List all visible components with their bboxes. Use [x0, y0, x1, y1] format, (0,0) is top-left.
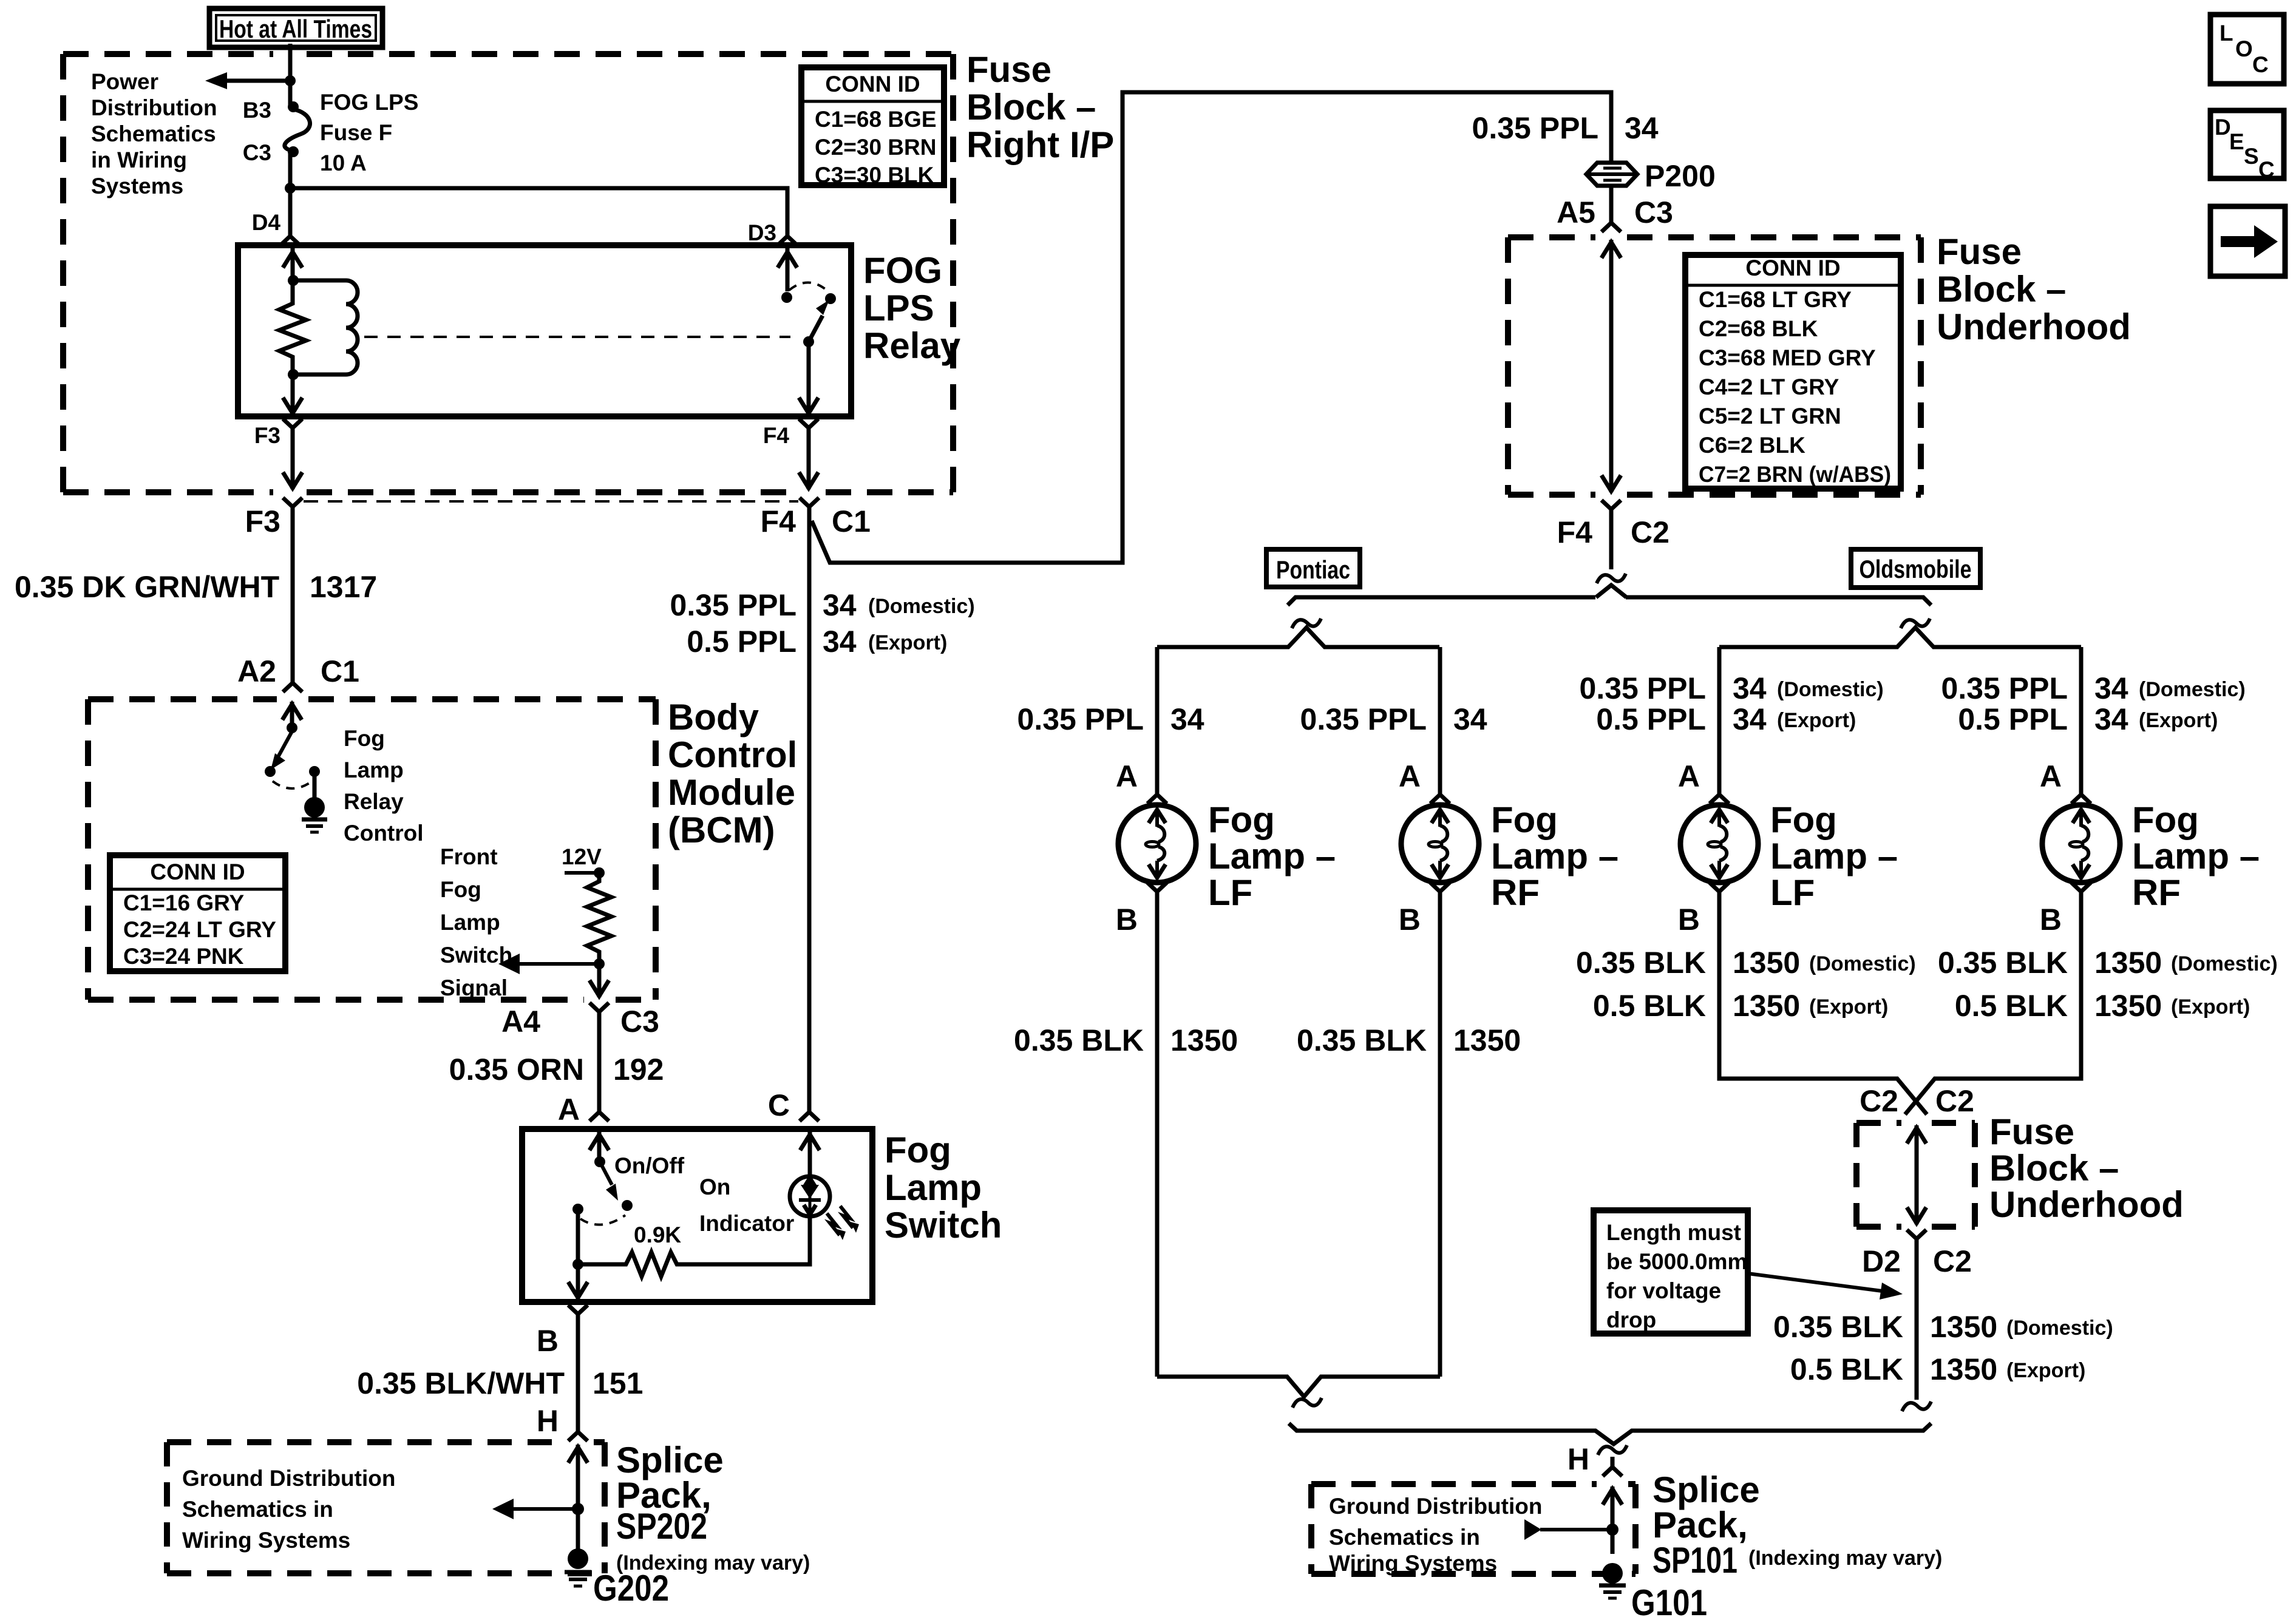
svg-text:A4: A4 [501, 1005, 540, 1039]
svg-text:34: 34 [1733, 702, 1767, 736]
junction below fuse [285, 183, 296, 194]
wire F4 to switch C [807, 517, 812, 1111]
svg-text:C3=24 PNK: C3=24 PNK [123, 944, 244, 969]
svg-text:(Domestic): (Domestic) [1809, 952, 1916, 975]
svg-text:(Domestic): (Domestic) [2139, 678, 2246, 701]
svg-text:Relay: Relay [344, 789, 404, 814]
ground G202 [565, 1548, 591, 1586]
svg-text:C1=68 LT GRY: C1=68 LT GRY [1699, 287, 1852, 312]
svg-text:10 A: 10 A [320, 151, 367, 175]
svg-text:C2: C2 [1935, 1084, 1974, 1118]
label Fog Lamp Fog Lamp - LF [1770, 799, 1898, 913]
svg-text:Fog: Fog [344, 726, 385, 751]
svg-text:C3: C3 [1634, 195, 1673, 229]
on indicator LED [790, 1176, 859, 1240]
svg-text:C1=68 BGE: C1=68 BGE [815, 107, 937, 132]
switch feed arrow C [800, 1132, 820, 1176]
relay coil feed arrow [283, 248, 302, 280]
svg-text:Body: Body [668, 697, 759, 737]
svg-text:Right I/P: Right I/P [966, 124, 1114, 165]
svg-text:C6=2 BLK: C6=2 BLK [1699, 433, 1805, 458]
relay coil L1 [293, 280, 358, 375]
svg-text:(Domestic): (Domestic) [868, 595, 975, 618]
connector C1 dashed link [304, 500, 798, 503]
switch arm on/off [600, 1162, 618, 1201]
svg-text:12V: 12V [562, 844, 602, 869]
svg-text:drop: drop [1606, 1307, 1656, 1332]
svg-text:Pontiac: Pontiac [1276, 555, 1350, 584]
fanout peak top [1596, 585, 1626, 597]
wire B to H [576, 1324, 580, 1422]
svg-text:(Export): (Export) [1809, 995, 1888, 1019]
12V junction [594, 867, 605, 878]
svg-text:Fuse: Fuse [1989, 1111, 2074, 1152]
connector C switch [800, 1102, 819, 1121]
label FOG LPS Relay [863, 250, 961, 366]
wire through small underhood box [1907, 1125, 1926, 1224]
SP202 side arrow [492, 1499, 578, 1519]
SP101 side arrow [1524, 1519, 1612, 1540]
wire into SP101 [1603, 1486, 1622, 1554]
connector B LF pontiac [1147, 883, 1167, 902]
svg-text:1350: 1350 [1930, 1310, 1997, 1344]
connector A LF olds [1710, 784, 1729, 804]
connector A LF pontiac [1147, 784, 1167, 804]
svg-text:1317: 1317 [310, 570, 377, 604]
Pontiac branch fan [1157, 628, 1439, 647]
relay throw dashed arc [789, 282, 828, 291]
LOC icon box [2210, 15, 2284, 84]
relay common contact [803, 336, 814, 347]
svg-text:L: L [2220, 21, 2233, 46]
relay switch feed from D3 [778, 248, 797, 291]
label 0.5 BLK 1350 export olds RF [1955, 989, 2250, 1023]
BCM pullup resistor [587, 873, 611, 964]
svg-text:34: 34 [2094, 702, 2128, 736]
svg-text:D4: D4 [252, 210, 281, 235]
svg-text:F4: F4 [1557, 515, 1593, 549]
svg-text:LF: LF [1770, 872, 1815, 913]
fog lamp bulb LF pontiac [1118, 805, 1196, 883]
label FOG LPS Fuse F 10 A [320, 90, 418, 175]
svg-text:On/Off: On/Off [614, 1153, 685, 1178]
wire B olds LF down [1719, 902, 1927, 1114]
fog lamp bulb RF olds [2042, 805, 2120, 883]
wire break at H splice [1598, 1445, 1627, 1455]
svg-text:SP202: SP202 [616, 1506, 707, 1547]
svg-text:C4=2 LT GRY: C4=2 LT GRY [1699, 375, 1839, 399]
wire to D3 [290, 188, 787, 234]
svg-text:B: B [1399, 903, 1421, 937]
wire through underhood fuse block [1601, 240, 1621, 492]
BCM contact right [309, 766, 320, 777]
svg-text:B: B [1116, 903, 1138, 937]
svg-text:0.35 ORN: 0.35 ORN [449, 1053, 584, 1086]
svg-text:C: C [768, 1088, 790, 1122]
svg-text:C1: C1 [832, 504, 871, 538]
svg-text:SP101: SP101 [1652, 1540, 1737, 1581]
svg-text:LPS: LPS [863, 288, 934, 328]
svg-text:(Domestic): (Domestic) [2171, 952, 2278, 975]
fuse F FOG LPS 10A element [285, 109, 310, 151]
label 0.35 PPL 34 domestic olds RF [1941, 671, 2246, 705]
wire A LF pontiac [1155, 647, 1160, 792]
svg-text:D2: D2 [1862, 1244, 1901, 1278]
svg-text:Wiring Systems: Wiring Systems [182, 1528, 350, 1553]
fuse F terminal dots [288, 101, 299, 157]
svg-text:Lamp –: Lamp – [1491, 836, 1618, 876]
svg-text:FOG: FOG [863, 250, 942, 291]
svg-text:C5=2 LT GRN: C5=2 LT GRN [1699, 404, 1841, 429]
body control module dashed box [88, 699, 656, 1000]
svg-text:C: C [2252, 52, 2269, 77]
label 0.35 BLK 1350 pontiac RF [1297, 1023, 1521, 1057]
svg-text:151: 151 [593, 1366, 643, 1400]
svg-text:0.5 BLK: 0.5 BLK [1955, 989, 2068, 1023]
label 0.35 BLK 1350 domestic olds LF [1576, 946, 1916, 980]
Oldsmobile box [1851, 549, 1980, 588]
label 0.35 PPL domestic [670, 588, 975, 622]
svg-text:0.5 BLK: 0.5 BLK [1593, 989, 1706, 1023]
svg-text:Lamp: Lamp [344, 758, 404, 782]
CONN ID table BCM [110, 855, 285, 971]
wire F3 to A2 [291, 517, 295, 682]
svg-text:Lamp –: Lamp – [2132, 836, 2260, 876]
label Fuse Block - Underhood [1937, 231, 2131, 347]
label 0.5 BLK 1350 export olds LF [1593, 989, 1889, 1023]
connector F4/C2 below underhood [1601, 500, 1621, 520]
svg-text:Fuse F: Fuse F [320, 120, 392, 145]
svg-text:Power: Power [91, 69, 158, 94]
svg-text:Switch: Switch [885, 1205, 1002, 1246]
svg-text:C2: C2 [1933, 1244, 1972, 1278]
svg-text:C2=24 LT GRY: C2=24 LT GRY [123, 917, 276, 942]
wire B olds RF down [1905, 902, 2081, 1114]
BCM internal ground [302, 771, 327, 832]
CONN ID table underhood [1685, 255, 1901, 489]
label 0.5 BLK 1350 export D2 [1790, 1352, 2086, 1386]
relay switch arm [809, 300, 829, 342]
switch junction [572, 1259, 583, 1270]
connector A RF pontiac [1430, 784, 1450, 804]
label 0.35 PPL 34 pontiac LF [1017, 702, 1204, 736]
svg-text:Lamp –: Lamp – [1208, 836, 1336, 876]
svg-text:Systems: Systems [91, 174, 183, 198]
relay box FOG LPS [238, 245, 851, 416]
svg-text:Front: Front [440, 844, 498, 869]
label Body Control Module BCM [668, 697, 797, 850]
wire F3 to fuse block edge [283, 438, 302, 489]
label Fog Lamp Switch [885, 1130, 1002, 1246]
svg-text:Fuse: Fuse [966, 49, 1051, 90]
svg-text:192: 192 [613, 1053, 664, 1086]
connector F3 below fuse block [283, 498, 302, 517]
svg-text:B: B [1678, 903, 1700, 937]
label 0.5 PPL export [687, 625, 947, 659]
svg-text:C2=30 BRN: C2=30 BRN [815, 135, 937, 160]
svg-text:Length must: Length must [1606, 1220, 1741, 1245]
svg-text:(Domestic): (Domestic) [1777, 678, 1884, 701]
connector D3 [778, 226, 797, 245]
svg-text:Pack,: Pack, [1652, 1505, 1748, 1545]
svg-text:(Export): (Export) [2139, 709, 2218, 732]
svg-text:F4: F4 [763, 423, 790, 448]
svg-text:34: 34 [2094, 671, 2128, 705]
svg-text:0.5 BLK: 0.5 BLK [1790, 1352, 1903, 1386]
splice pack SP101 dashed box [1311, 1484, 1635, 1574]
svg-text:Lamp: Lamp [440, 910, 500, 935]
svg-text:34: 34 [823, 625, 857, 659]
BCM switch pivot [287, 722, 297, 733]
svg-text:0.35 PPL: 0.35 PPL [1472, 111, 1598, 145]
SP202 junction [572, 1503, 584, 1515]
svg-text:C2=68 BLK: C2=68 BLK [1699, 316, 1818, 341]
wire D2 down [1915, 1249, 1919, 1400]
connector A5/C3 [1601, 212, 1621, 232]
relay contact NO [825, 293, 836, 304]
svg-text:1350: 1350 [2094, 989, 2162, 1023]
signal junction [594, 958, 605, 969]
wire into SP202 [568, 1445, 588, 1550]
connector F4/C1 below fuse block [800, 498, 819, 517]
svg-text:Fog: Fog [1491, 799, 1558, 840]
svg-text:C1=16 GRY: C1=16 GRY [123, 890, 244, 915]
svg-text:Control: Control [344, 821, 424, 846]
splice P200 [1586, 163, 1637, 186]
BCM contact left [265, 766, 276, 777]
arrow to power distribution [205, 72, 290, 89]
svg-text:Block –: Block – [1937, 269, 2066, 310]
svg-text:C3: C3 [243, 140, 271, 165]
svg-text:Underhood: Underhood [1989, 1184, 2184, 1225]
svg-text:(Export): (Export) [868, 631, 947, 654]
svg-text:Block –: Block – [1989, 1148, 2119, 1188]
note Power Distribution Schematics in Wiring Systems [91, 69, 217, 198]
svg-text:E: E [2229, 129, 2244, 154]
svg-text:Oldsmobile: Oldsmobile [1860, 555, 1972, 583]
svg-text:A: A [2040, 759, 2062, 793]
switch contact left [572, 1204, 583, 1215]
svg-text:F3: F3 [245, 504, 280, 538]
label Fog Lamp Fog Lamp - RF [1491, 799, 1618, 913]
svg-text:(BCM): (BCM) [668, 810, 775, 850]
next arrow icon box [2210, 206, 2285, 276]
svg-text:0.35 BLK: 0.35 BLK [1576, 946, 1706, 980]
ground bus fan bottom [1289, 1423, 1931, 1444]
wire coil to F3 pin [283, 375, 302, 416]
wire break Pontiac [1292, 619, 1321, 628]
connector B RF olds [2071, 883, 2091, 902]
connector B switch [568, 1305, 588, 1324]
label Fuse Block - Underhood small [1989, 1111, 2184, 1225]
wire A LF olds [1717, 647, 1722, 792]
wire A4 to switch A [597, 1022, 602, 1111]
svg-text:(Export): (Export) [2006, 1359, 2085, 1382]
svg-text:1350: 1350 [1733, 989, 1800, 1023]
Hot at All Times box [209, 8, 382, 47]
svg-text:A: A [1678, 759, 1700, 793]
label Fog Lamp Relay Control [344, 726, 424, 846]
wire from Hot at All Times [288, 44, 293, 107]
svg-text:Ground Distribution: Ground Distribution [182, 1466, 395, 1491]
svg-text:Control: Control [668, 734, 797, 775]
svg-text:D: D [2215, 115, 2231, 140]
svg-text:Wiring Systems: Wiring Systems [1329, 1551, 1497, 1576]
svg-text:Fuse: Fuse [1937, 231, 2022, 272]
svg-text:A: A [1399, 759, 1421, 793]
svg-text:(Export): (Export) [2171, 995, 2250, 1019]
connector D4 [280, 226, 300, 245]
label 0.35 PPL 34 at P200 [1472, 111, 1659, 145]
svg-text:LF: LF [1208, 872, 1252, 913]
connector H splice [1603, 1457, 1622, 1476]
svg-text:C7=2 BRN (w/ABS): C7=2 BRN (w/ABS) [1699, 462, 1891, 487]
svg-text:A: A [558, 1093, 580, 1127]
label On Indicator [699, 1175, 794, 1236]
svg-text:H: H [537, 1404, 559, 1438]
svg-text:0.35 BLK/WHT: 0.35 BLK/WHT [357, 1366, 565, 1400]
wire break D2 bottom [1902, 1402, 1931, 1411]
svg-text:D3: D3 [748, 220, 776, 245]
svg-text:1350: 1350 [1170, 1023, 1238, 1057]
note Ground Distribution Schematics SP202 [182, 1466, 395, 1553]
connector B LF olds [1710, 883, 1729, 902]
svg-text:Fog: Fog [1208, 799, 1275, 840]
svg-text:G202: G202 [593, 1568, 669, 1609]
label 0.35 BLK 1350 pontiac LF [1014, 1023, 1238, 1057]
svg-text:C1: C1 [321, 654, 359, 688]
svg-text:G101: G101 [1631, 1582, 1707, 1617]
svg-text:CONN ID: CONN ID [150, 859, 245, 884]
svg-text:Underhood: Underhood [1937, 307, 2131, 347]
svg-text:0.35 PPL: 0.35 PPL [1941, 671, 2068, 705]
switch contact right [622, 1200, 633, 1211]
svg-text:34: 34 [823, 588, 857, 622]
svg-text:0.35 PPL: 0.35 PPL [670, 588, 796, 622]
wire F4 to fuse block edge [799, 438, 818, 489]
svg-text:RF: RF [2132, 872, 2181, 913]
svg-text:0.35 BLK: 0.35 BLK [1773, 1310, 1903, 1344]
svg-text:34: 34 [1733, 671, 1767, 705]
fog lamp bulb LF olds [1680, 805, 1758, 883]
svg-text:0.35 PPL: 0.35 PPL [1017, 702, 1144, 736]
svg-text:1350: 1350 [1930, 1352, 1997, 1386]
switch pivot [594, 1156, 605, 1167]
BCM relay control feed arrow [282, 702, 302, 728]
svg-text:Fog: Fog [2132, 799, 2199, 840]
connector H G202 [568, 1422, 588, 1441]
fuse block Underhood dashed box [1508, 237, 1921, 495]
label Front Fog Lamp Switch Signal [440, 844, 512, 1000]
svg-text:34: 34 [1453, 702, 1487, 736]
label Fuse Block - Right I/P [966, 49, 1114, 165]
connector F3 under relay [283, 419, 302, 438]
wire contact down [576, 1209, 580, 1264]
wire A RF olds [2079, 647, 2084, 792]
label 0.35 BLK 1350 domestic D2 [1773, 1310, 2113, 1344]
relay resistor [279, 280, 306, 375]
wire F4/C2 stub [1609, 520, 1614, 569]
Oldsmobile branch fan [1719, 628, 2081, 647]
wire B pontiac RF down [1438, 902, 1442, 1377]
svg-text:0.35 BLK: 0.35 BLK [1014, 1023, 1144, 1057]
svg-text:1350: 1350 [1733, 946, 1800, 980]
relay common to F4 pin [799, 342, 818, 416]
svg-text:Lamp –: Lamp – [1770, 836, 1898, 876]
BCM switch arm [271, 731, 292, 770]
SP101 junction [1606, 1524, 1618, 1536]
svg-text:34: 34 [1625, 111, 1659, 145]
svg-text:CONN ID: CONN ID [825, 72, 920, 97]
svg-text:be 5000.0mm: be 5000.0mm [1606, 1249, 1747, 1274]
svg-text:for voltage: for voltage [1606, 1278, 1721, 1303]
connector A RF olds [2071, 784, 2091, 804]
svg-text:0.35 DK GRN/WHT: 0.35 DK GRN/WHT [15, 570, 279, 604]
svg-text:Splice: Splice [616, 1440, 724, 1480]
connector A2/C1 [283, 673, 302, 692]
svg-text:Fog: Fog [440, 877, 481, 902]
svg-text:B: B [537, 1324, 559, 1358]
label Splice Pack SP101 [1652, 1470, 1942, 1581]
svg-text:Module: Module [668, 772, 795, 813]
svg-text:0.9K: 0.9K [634, 1222, 681, 1247]
svg-text:(Indexing may vary): (Indexing may vary) [1748, 1547, 1942, 1570]
12V feed [565, 871, 599, 875]
relay contact NC [781, 292, 792, 303]
svg-text:A: A [1116, 759, 1138, 793]
svg-text:O: O [2235, 36, 2253, 61]
svg-text:34: 34 [1170, 702, 1204, 736]
svg-text:1350: 1350 [1453, 1023, 1521, 1057]
signal arrow [498, 954, 599, 974]
note Ground Distribution Schematics SP101 [1329, 1494, 1542, 1576]
connector A4/C3 [589, 1003, 609, 1022]
connector A switch [589, 1102, 609, 1121]
BCM throw dashed arc [273, 781, 312, 788]
wire break Oldsmobile [1901, 619, 1930, 628]
label 0.5 PPL 34 export olds LF [1596, 702, 1856, 736]
svg-text:B: B [2040, 903, 2062, 937]
svg-text:Lamp: Lamp [885, 1167, 982, 1208]
wire P200 to A5 [1609, 186, 1614, 212]
svg-text:Block –: Block – [966, 87, 1096, 127]
switch feed arrow A [589, 1132, 609, 1162]
svg-text:0.5 PPL: 0.5 PPL [1596, 702, 1706, 736]
svg-text:FOG LPS: FOG LPS [320, 90, 418, 115]
relay coil bottom junction [288, 369, 299, 380]
svg-text:C2: C2 [1860, 1084, 1898, 1118]
fog lamp switch box [522, 1129, 872, 1302]
svg-text:P200: P200 [1645, 159, 1716, 193]
connector C2/C2 mated [0, 0, 1, 1]
switch throw dashed arc [580, 1215, 625, 1225]
svg-text:Schematics in: Schematics in [182, 1497, 333, 1522]
svg-text:0.35 BLK: 0.35 BLK [1938, 946, 2068, 980]
connector F4 under relay [799, 419, 818, 438]
svg-text:S: S [2244, 144, 2259, 169]
splice pack SP202 dashed box [167, 1442, 605, 1573]
svg-text:H: H [1567, 1442, 1589, 1476]
svg-text:C: C [2258, 157, 2275, 182]
wire break pontiac merge [1292, 1398, 1322, 1408]
wire junction to B [568, 1264, 588, 1299]
label 0.35 BLK 1350 domestic olds RF [1938, 946, 2278, 980]
wire signal to A4 [589, 964, 609, 997]
wire F4 to underhood feed [812, 92, 1611, 563]
svg-text:F3: F3 [254, 423, 280, 448]
svg-text:Splice: Splice [1652, 1470, 1760, 1510]
svg-text:Fog: Fog [1770, 799, 1837, 840]
